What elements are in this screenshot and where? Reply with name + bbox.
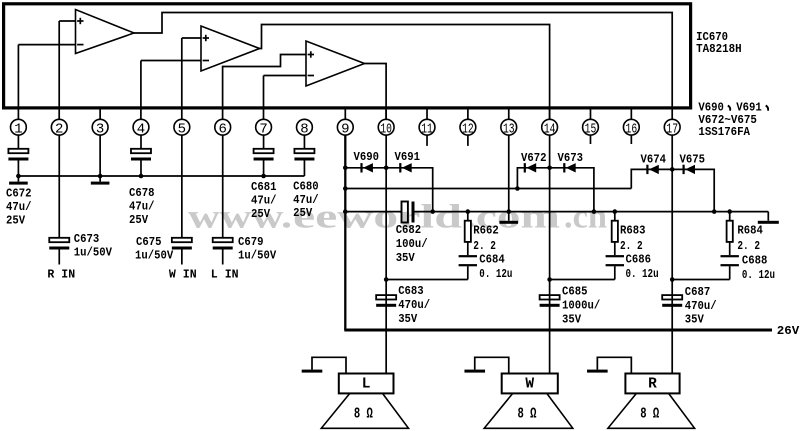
svg-text:2. 2: 2. 2 [737, 239, 760, 253]
svg-text:15: 15 [585, 121, 597, 137]
svg-text:470u/: 470u/ [685, 299, 717, 313]
svg-text:2. 2: 2. 2 [473, 239, 496, 253]
svg-text:100u/: 100u/ [396, 237, 428, 251]
svg-text:TA8218H: TA8218H [696, 42, 742, 56]
svg-text:17: 17 [666, 121, 678, 137]
svg-text:8 Ω: 8 Ω [517, 407, 536, 423]
svg-text:11: 11 [421, 121, 433, 137]
svg-text:470u/: 470u/ [398, 298, 430, 312]
svg-text:1SS176FA: 1SS176FA [698, 125, 750, 139]
svg-text:0. 12u: 0. 12u [479, 267, 512, 281]
svg-text:1u/50V: 1u/50V [238, 249, 277, 263]
svg-text:C673: C673 [74, 232, 100, 246]
svg-text:V690: V690 [354, 150, 380, 164]
svg-text:V673: V673 [558, 151, 584, 165]
svg-text:35V: 35V [396, 251, 416, 265]
svg-text:4: 4 [137, 121, 145, 137]
svg-text:12: 12 [462, 121, 474, 137]
svg-text:47u/: 47u/ [251, 194, 277, 208]
svg-text:V672: V672 [521, 151, 547, 165]
svg-text:C687: C687 [685, 285, 711, 299]
svg-text:C678: C678 [129, 186, 155, 200]
svg-text:9: 9 [341, 121, 349, 137]
svg-text:25V: 25V [251, 207, 271, 221]
svg-text:1000u/: 1000u/ [562, 298, 600, 312]
svg-text:16: 16 [626, 121, 638, 137]
svg-text:1u/50V: 1u/50V [135, 249, 174, 263]
svg-text:10: 10 [380, 121, 392, 137]
svg-text:35V: 35V [398, 312, 418, 326]
svg-text:C681: C681 [251, 180, 277, 194]
svg-text:5: 5 [178, 121, 186, 137]
svg-text:C686: C686 [626, 252, 652, 266]
svg-text:R: R [648, 377, 657, 393]
svg-text:14: 14 [544, 121, 556, 137]
svg-text:35V: 35V [685, 313, 705, 327]
svg-text:C682: C682 [396, 223, 422, 237]
svg-text:2. 2: 2. 2 [620, 239, 643, 253]
svg-text:47u/: 47u/ [293, 193, 319, 207]
svg-text:25V: 25V [293, 206, 313, 220]
svg-text:.cn: .cn [564, 198, 607, 235]
svg-text:C684: C684 [479, 252, 505, 266]
svg-text:C680: C680 [293, 179, 319, 193]
svg-text:R683: R683 [620, 224, 646, 238]
svg-text:6: 6 [219, 121, 227, 137]
svg-text:8: 8 [300, 121, 308, 137]
svg-text:1u/50V: 1u/50V [74, 246, 113, 260]
svg-text:C675: C675 [136, 235, 162, 249]
svg-text:C672: C672 [6, 186, 32, 200]
svg-text:R662: R662 [473, 224, 499, 238]
svg-text:8 Ω: 8 Ω [640, 407, 659, 423]
svg-text:V674: V674 [641, 153, 667, 167]
svg-text:C685: C685 [562, 285, 588, 299]
svg-text:V691: V691 [395, 150, 421, 164]
svg-text:3: 3 [96, 121, 104, 137]
svg-text:47u/: 47u/ [6, 200, 32, 214]
svg-text:R684: R684 [737, 224, 763, 238]
svg-text:25V: 25V [6, 214, 26, 228]
svg-text:C679: C679 [238, 235, 264, 249]
svg-text:8 Ω: 8 Ω [354, 407, 373, 423]
svg-text:25V: 25V [129, 213, 149, 227]
svg-text:7: 7 [259, 121, 267, 137]
svg-text:0. 12u: 0. 12u [742, 268, 775, 282]
svg-text:W: W [525, 377, 534, 393]
svg-text:13: 13 [503, 121, 515, 137]
svg-text:L IN: L IN [211, 268, 239, 282]
svg-text:R IN: R IN [47, 268, 75, 282]
svg-text:26V: 26V [777, 324, 800, 338]
svg-text:1: 1 [14, 121, 22, 137]
svg-text:35V: 35V [562, 312, 582, 326]
svg-text:W IN: W IN [169, 268, 197, 282]
svg-text:L: L [362, 377, 371, 393]
svg-text:V675: V675 [680, 153, 706, 167]
svg-text:2: 2 [55, 121, 63, 137]
svg-text:0. 12u: 0. 12u [626, 267, 659, 281]
svg-text:C688: C688 [742, 254, 768, 268]
svg-text:47u/: 47u/ [129, 200, 155, 214]
svg-text:C683: C683 [398, 284, 424, 298]
